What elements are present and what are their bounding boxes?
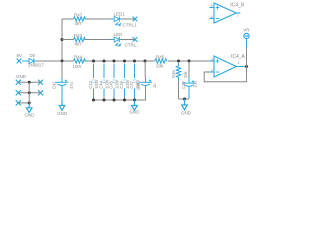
wire row1 [18, 81, 40, 83]
wire R44 to cap bank [85, 60, 155, 62]
wire cap bank bottom rail [94, 99, 147, 101]
svg-text:C45: C45 [109, 80, 114, 88]
IC4_B plus mark [216, 6, 220, 10]
svg-text:R43: R43 [74, 33, 83, 38]
svg-text:3: 3 [211, 57, 213, 61]
svg-text:CTRL: CTRL [125, 43, 137, 48]
junction C49 tap [188, 60, 191, 63]
wire row2 [18, 92, 40, 94]
net flag stub row3 left [16, 100, 21, 105]
svg-text:C44: C44 [99, 80, 104, 88]
wire left bus vertical [61, 19, 63, 61]
junction row1 [28, 81, 31, 84]
svg-text:GND: GND [130, 110, 141, 115]
svg-text:IC4_A: IC4_A [231, 54, 246, 60]
resistor R44 [74, 59, 86, 63]
junction IC4_A output [245, 65, 248, 68]
op-amp IC4_B [210, 3, 241, 23]
wire R46 to bottom [178, 81, 180, 99]
capacitor C44 [102, 64, 106, 98]
IC4_A minus mark [216, 71, 220, 73]
svg-text:5: 5 [211, 4, 213, 8]
wire cap bank bottom stubs [94, 97, 146, 100]
ground R46/C49 [182, 99, 188, 110]
IC4_B minus mark [216, 18, 220, 20]
junction rail c4 [123, 60, 126, 63]
svg-text:4k7: 4k7 [75, 21, 83, 26]
svg-text:R47: R47 [74, 12, 83, 17]
net flag CTRL1 [133, 17, 138, 22]
LED LED1 [111, 17, 123, 22]
ground cap bank [132, 100, 138, 110]
op-amp IC4_A [210, 56, 246, 77]
resistor R45 [155, 59, 167, 63]
capacitor C42 polarized [56, 77, 69, 101]
capacitor C48 polarized [139, 77, 152, 97]
resistor R46 [176, 63, 180, 81]
svg-text:C48: C48 [136, 82, 141, 90]
wire LED1 to CTRL1 [122, 18, 136, 20]
svg-text:C47: C47 [129, 80, 134, 88]
capacitor C47 [132, 64, 136, 98]
wire row3 [18, 102, 29, 104]
resistor R47 [74, 17, 86, 21]
wire bus corner to R47 [62, 18, 74, 20]
net flag stub row1 left [16, 80, 21, 85]
svg-text:GND: GND [181, 111, 192, 116]
svg-text:C49: C49 [181, 81, 186, 89]
svg-text:C43: C43 [88, 80, 93, 88]
capacitor C43 [91, 64, 95, 98]
port VR [244, 33, 249, 38]
junction rail c2 [103, 60, 106, 63]
junction bottom c5 [133, 99, 136, 102]
capacitor C49 polarized [183, 78, 196, 99]
wire C42 top [61, 61, 63, 77]
net flag CTRL [133, 37, 138, 42]
wire C49 top [188, 61, 190, 78]
svg-text:1N6817: 1N6817 [28, 63, 44, 68]
junction rail c5 [133, 60, 136, 63]
svg-text:100r: 100r [73, 64, 83, 69]
ground C42 [59, 101, 65, 110]
svg-text:4k7: 4k7 [75, 42, 83, 47]
wire R45 to opamp [168, 60, 210, 62]
junction rail c1 [92, 60, 95, 63]
junction row2 [28, 91, 31, 94]
junction bottom c1 [92, 99, 95, 102]
capacitor C46 [122, 64, 126, 98]
ground cluster [26, 104, 32, 113]
junction bus/R43 [61, 38, 64, 41]
svg-text:10u: 10u [193, 81, 198, 88]
capacitor C45 [112, 64, 116, 98]
junction node A [61, 60, 64, 63]
junction rail c3 [113, 60, 116, 63]
svg-text:1: 1 [238, 61, 240, 65]
svg-text:20k: 20k [183, 70, 188, 78]
svg-text:20k: 20k [156, 64, 164, 69]
wire LED to CTRL [122, 39, 136, 41]
svg-text:LED: LED [114, 32, 124, 37]
VR pin [246, 39, 248, 47]
junction bottom c2 [103, 99, 106, 102]
resistor R43 [74, 37, 86, 41]
wire R43 to LED [85, 39, 113, 41]
svg-text:R44: R44 [74, 54, 83, 59]
wire feedback [204, 67, 246, 82]
svg-text:CTRL1: CTRL1 [123, 23, 138, 28]
svg-text:GND: GND [24, 112, 35, 117]
svg-text:IC4_B: IC4_B [230, 3, 245, 9]
wire R46/C49 bottom rail [179, 98, 190, 100]
IC4_A plus mark [216, 59, 220, 63]
svg-text:D0: D0 [30, 53, 36, 58]
svg-text:9V: 9V [17, 53, 23, 58]
svg-text:1u: 1u [152, 83, 157, 88]
net flag 9V [17, 59, 22, 64]
LED LED [111, 37, 123, 42]
wire bus to R43 [62, 39, 74, 41]
svg-text:LED1: LED1 [114, 12, 126, 17]
svg-text:2: 2 [211, 68, 213, 72]
svg-text:C46: C46 [119, 80, 124, 88]
net flag stub row1 right [38, 80, 43, 85]
LED emission arrows [116, 43, 122, 46]
wire R47 to LED1 [85, 18, 113, 20]
junction bottom c4 [123, 99, 126, 102]
wire D0 to node A [37, 60, 74, 62]
LED1 emission arrows [116, 22, 122, 25]
svg-text:C42: C42 [51, 81, 56, 89]
svg-text:6: 6 [211, 15, 213, 19]
junction bottom c3 [113, 99, 116, 102]
wire cluster vertical [28, 82, 30, 104]
svg-text:R46: R46 [171, 70, 176, 78]
svg-text:GND: GND [16, 74, 27, 79]
junction bottom gnd tap [183, 98, 186, 101]
net flag stub row2 left [16, 90, 21, 95]
net flag stub row2 right [38, 90, 43, 95]
wire C48 top [144, 61, 146, 77]
junction R46 tap [177, 60, 180, 63]
junction row3 [28, 101, 31, 104]
svg-text:R45: R45 [156, 54, 165, 59]
svg-text:47u: 47u [69, 82, 74, 89]
diode D0 [22, 58, 37, 63]
wire output to VR [246, 47, 248, 67]
svg-text:GND: GND [57, 111, 68, 116]
svg-text:VR: VR [243, 28, 250, 33]
junction rail c6 [144, 60, 147, 63]
svg-text:7: 7 [237, 14, 239, 18]
